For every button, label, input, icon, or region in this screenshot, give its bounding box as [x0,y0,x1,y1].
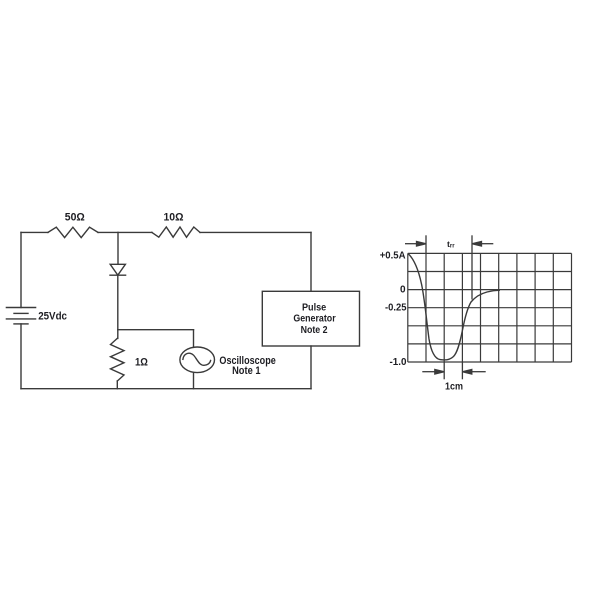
wire between R1 and node A [98,231,152,233]
diode CR1 triangle [110,264,125,275]
battery BT1 plate short [14,312,28,314]
wire R3 to bottom wire [116,381,118,389]
svg-text:Pulse: Pulse [302,301,326,313]
svg-text:50Ω: 50Ω [65,212,85,224]
wire node A to diode anode [117,232,119,264]
svg-text:10Ω: 10Ω [164,212,184,224]
trr left arrow [405,241,426,246]
wire node B horizontal to oscilloscope [118,329,194,331]
wire top-right vertical to pulse generator [310,232,312,291]
svg-text:+0.5A: +0.5A [380,251,406,262]
wire bottom horizontal [21,388,311,390]
svg-text:Note 2: Note 2 [301,324,328,336]
svg-text:Generator: Generator [293,313,335,325]
diode CR1 cathode bar [110,274,126,276]
wire top-left horizontal [21,231,48,233]
1cm right arrow [462,369,485,374]
waveform curve [408,254,500,360]
1cm left arrow [422,369,444,374]
trr right arrow [472,241,493,246]
resistor R3 1ohm [111,338,125,381]
pulse generator U1 box [262,291,359,346]
svg-text:trr: trr [447,239,455,250]
battery BT1 plate long top [6,307,35,309]
wire R2 to top-right corner [200,231,311,233]
wire diode to 1ohm resistor [117,275,119,338]
battery BT1 plate long [6,318,35,320]
wire oscilloscope top lead [193,330,195,348]
svg-text:1cm: 1cm [445,380,463,392]
resistor R2 10ohm [152,227,200,237]
wire oscilloscope bottom lead [193,373,195,389]
1cm left tick [443,362,445,379]
trr right tick [471,235,473,299]
svg-text:Note 1: Note 1 [232,365,260,377]
svg-text:-0.25: -0.25 [385,303,407,314]
svg-text:25Vdc: 25Vdc [38,311,67,323]
wire pulse generator to bottom wire [310,346,312,389]
resistor R1 50ohm [48,227,98,237]
oscilloscope sine wave [183,353,211,365]
oscilloscope M1 circle [180,347,215,373]
battery BT1 plate short bottom [14,323,28,325]
wire battery to bottom-left corner [20,324,22,389]
svg-text:1Ω: 1Ω [135,356,148,368]
trr left tick [425,235,427,253]
1cm right tick [461,362,463,379]
graph grid [408,253,572,362]
wire left vertical [20,232,22,307]
svg-text:-1.0: -1.0 [390,357,407,368]
svg-text:0: 0 [400,285,406,296]
